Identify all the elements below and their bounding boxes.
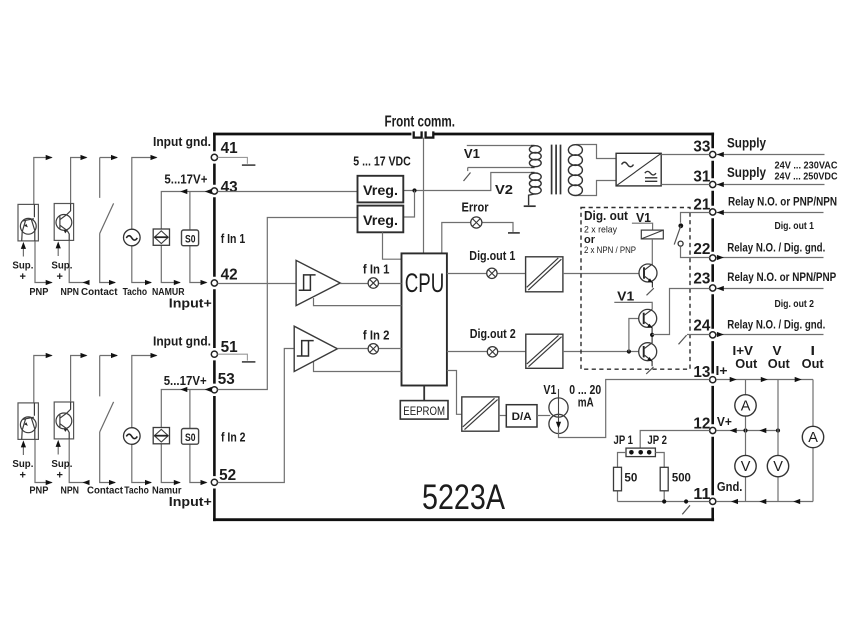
svg-text:f In 1: f In 1 bbox=[363, 263, 390, 277]
svg-text:f In 1: f In 1 bbox=[221, 232, 246, 246]
svg-text:Supply: Supply bbox=[727, 136, 766, 151]
svg-text:Relay N.O. / Dig. gnd.: Relay N.O. / Dig. gnd. bbox=[727, 317, 825, 331]
wire 12 to jumpers bbox=[640, 431, 709, 449]
svg-text:Sup.: Sup. bbox=[51, 260, 72, 272]
svg-text:Relay N.O. or NPN/PNP: Relay N.O. or NPN/PNP bbox=[727, 270, 836, 284]
label Dig.out 2 right bbox=[775, 298, 815, 310]
switch Contact ch1 bbox=[100, 155, 118, 285]
sensor PNP ch2 bbox=[18, 353, 53, 485]
svg-text:V1: V1 bbox=[617, 290, 634, 304]
svg-text:5223A: 5223A bbox=[422, 478, 506, 517]
sensor NAMUR ch1 bbox=[153, 229, 181, 285]
terminal 42 bbox=[211, 266, 237, 286]
wire CPU to opto3 bbox=[447, 371, 462, 415]
terminal 21 bbox=[693, 197, 715, 216]
svg-text:Tacho: Tacho bbox=[124, 486, 149, 497]
meter A column I out bbox=[802, 380, 823, 502]
label V+ bbox=[717, 415, 732, 429]
wire 53 to Vreg2 bbox=[218, 218, 358, 390]
meter V column V out bbox=[767, 380, 788, 502]
wire current source to terminal 13 bbox=[559, 380, 710, 438]
svg-text:41: 41 bbox=[221, 140, 238, 157]
optocoupler 3 bbox=[462, 397, 499, 431]
svg-text:V: V bbox=[773, 459, 783, 475]
svg-text:Out: Out bbox=[768, 357, 791, 371]
terminal 22 bbox=[693, 241, 715, 261]
label I+V Out bbox=[733, 344, 759, 371]
svg-text:43: 43 bbox=[221, 179, 238, 196]
svg-text:42: 42 bbox=[221, 266, 238, 283]
label 5223A bbox=[422, 478, 506, 517]
label Tacho ch1 bbox=[123, 287, 148, 298]
label Namur ch2 bbox=[152, 486, 182, 497]
svg-text:V: V bbox=[741, 459, 751, 475]
svg-text:CPU: CPU bbox=[405, 268, 445, 298]
lamp Error bbox=[442, 200, 520, 253]
front comm connector bbox=[385, 113, 456, 253]
svg-text:NAMUR: NAMUR bbox=[152, 287, 185, 298]
jumper header JP1 JP2 bbox=[614, 433, 668, 457]
svg-text:f In 2: f In 2 bbox=[363, 329, 390, 343]
label 5...17V+ ch2 bbox=[164, 374, 207, 388]
label Input gnd. ch1 bbox=[153, 135, 211, 149]
wire S0 drop ch1 bbox=[189, 192, 191, 231]
terminal 52 bbox=[211, 467, 236, 485]
svg-text:Contact: Contact bbox=[81, 287, 118, 298]
svg-text:V+: V+ bbox=[717, 415, 732, 429]
wire Relay N.O. or PNP/NPN 21 bbox=[716, 195, 837, 216]
svg-text:V2: V2 bbox=[495, 182, 513, 197]
current source 0..20mA bbox=[543, 383, 601, 434]
terminal 12 bbox=[693, 416, 715, 434]
label I Out bbox=[802, 344, 825, 371]
wire Vreg2 to CPU bbox=[383, 232, 402, 259]
svg-text:V: V bbox=[773, 344, 783, 358]
svg-text:f In 2: f In 2 bbox=[221, 431, 246, 445]
svg-text:33: 33 bbox=[693, 139, 710, 156]
label V Out bbox=[768, 344, 791, 371]
CPU U1 bbox=[402, 253, 447, 385]
relay coil K1 bbox=[632, 211, 663, 264]
svg-text:I: I bbox=[811, 344, 816, 358]
svg-text:Sup.: Sup. bbox=[51, 458, 72, 470]
svg-text:Input gnd.: Input gnd. bbox=[153, 335, 211, 349]
lamp Dig.out 1 bbox=[447, 249, 526, 279]
svg-text:V1: V1 bbox=[464, 146, 480, 161]
svg-text:EEPROM: EEPROM bbox=[403, 404, 445, 418]
svg-text:+: + bbox=[57, 271, 63, 283]
label Input+ ch2 bbox=[169, 494, 212, 509]
dashed box Dig. out bbox=[581, 208, 690, 370]
svg-text:S0: S0 bbox=[185, 234, 196, 246]
optocoupler 1 bbox=[526, 257, 563, 292]
terminal 41 ground wire bbox=[218, 157, 256, 165]
wire Gnd row bbox=[716, 499, 813, 504]
terminal 43 bbox=[211, 179, 237, 196]
label Sup. NPN ch2 bbox=[51, 458, 72, 482]
svg-text:51: 51 bbox=[221, 339, 238, 356]
label NPN ch2 bbox=[61, 486, 80, 497]
svg-text:Relay N.O. / Dig. gnd.: Relay N.O. / Dig. gnd. bbox=[727, 240, 825, 254]
terminal 53 bbox=[211, 371, 235, 393]
wire terminal 24 stub bbox=[679, 335, 710, 345]
sensor PNP ch1 bbox=[18, 155, 53, 285]
meter V column I+V bbox=[735, 431, 756, 502]
transistor Q3 bbox=[639, 335, 657, 374]
node Q2-Q3 to terminal 23 bbox=[650, 289, 710, 338]
main unit top border bbox=[213, 133, 714, 136]
label Tacho ch2 bbox=[124, 486, 149, 497]
transformer primary ground bbox=[524, 205, 536, 207]
transistor Q1 bbox=[639, 264, 657, 295]
svg-text:Out: Out bbox=[735, 357, 758, 371]
svg-text:21: 21 bbox=[693, 197, 710, 214]
wire PSU to 33 bbox=[661, 154, 709, 156]
terminal 51 bbox=[211, 339, 237, 357]
svg-text:Dig. out 2: Dig. out 2 bbox=[775, 298, 815, 310]
EEPROM memory bbox=[400, 386, 448, 420]
transformer core bbox=[552, 145, 561, 195]
label I+ bbox=[716, 364, 728, 378]
label Sup. NPN ch1 bbox=[51, 260, 72, 284]
wire Relay N.O. / Dig. gnd. 22 bbox=[716, 240, 825, 260]
svg-text:24: 24 bbox=[693, 318, 710, 335]
svg-text:+: + bbox=[57, 470, 63, 482]
comparator 2 bbox=[218, 326, 402, 482]
label Gnd. bbox=[717, 480, 743, 494]
svg-text:50: 50 bbox=[624, 473, 637, 485]
transformer primary winding 2 bbox=[529, 173, 542, 206]
lamp Dig.out 2 bbox=[447, 327, 526, 357]
power supply unit bbox=[616, 153, 661, 186]
lamp f In 1 bbox=[340, 263, 401, 289]
resistor 50 bbox=[614, 453, 638, 502]
svg-text:31: 31 bbox=[693, 168, 710, 185]
regulator Vreg1 bbox=[358, 176, 404, 203]
svg-text:A: A bbox=[741, 399, 751, 415]
svg-text:mA: mA bbox=[578, 395, 594, 409]
converter D/A bbox=[506, 405, 537, 427]
label 5 ... 17 VDC bbox=[353, 154, 411, 169]
wire Relay N.O. or NPN/PNP 23 bbox=[716, 270, 836, 291]
svg-text:5...17V+: 5...17V+ bbox=[164, 173, 207, 187]
optocoupler 2 bbox=[526, 334, 563, 368]
sensor S0 ch1 bbox=[182, 230, 208, 285]
label 5...17V+ ch1 bbox=[164, 173, 207, 187]
resistor 500 bbox=[655, 453, 691, 502]
wire opto1 to Q1 base bbox=[563, 273, 644, 275]
wire I+ row bbox=[716, 377, 813, 382]
terminal 41 bbox=[211, 140, 237, 160]
terminal 33 bbox=[693, 139, 715, 158]
wire Relay N.O. / Dig. gnd. 24 bbox=[716, 317, 825, 337]
svg-text:Namur: Namur bbox=[152, 486, 182, 497]
wire resistor bus to terminal 11 bbox=[618, 499, 710, 514]
svg-text:Sup.: Sup. bbox=[12, 260, 33, 272]
label Contact ch2 bbox=[87, 486, 124, 497]
svg-text:I+: I+ bbox=[716, 364, 728, 378]
regulator Vreg2 bbox=[358, 206, 404, 233]
wire opto3 to DA bbox=[499, 415, 506, 417]
switch Contact ch2 bbox=[100, 353, 118, 485]
svg-text:Contact: Contact bbox=[87, 486, 124, 497]
svg-text:NPN: NPN bbox=[61, 486, 80, 497]
sensor S0 ch2 bbox=[182, 429, 208, 486]
terminal 23 bbox=[693, 271, 715, 292]
svg-text:24V ... 230VAC: 24V ... 230VAC bbox=[775, 161, 838, 172]
svg-text:52: 52 bbox=[219, 467, 236, 484]
svg-text:NPN: NPN bbox=[61, 287, 80, 298]
svg-text:Dig.out 2: Dig.out 2 bbox=[470, 327, 516, 341]
wire S0 drop ch2 bbox=[189, 390, 191, 429]
switch relay contact 21-22 bbox=[674, 213, 709, 258]
svg-text:+: + bbox=[20, 470, 26, 482]
svg-text:53: 53 bbox=[218, 371, 235, 388]
svg-text:Dig.out 1: Dig.out 1 bbox=[469, 249, 515, 263]
wire DA to current source bbox=[537, 415, 550, 417]
sensor NPN ch2 bbox=[54, 353, 89, 485]
transformer secondary winding bbox=[568, 145, 616, 196]
main unit left border bbox=[213, 133, 216, 521]
svg-text:A: A bbox=[808, 430, 818, 446]
transformer primary winding 1 bbox=[529, 146, 541, 168]
svg-text:Gnd.: Gnd. bbox=[717, 480, 743, 494]
label Supply 31 bbox=[716, 161, 837, 187]
svg-text:PNP: PNP bbox=[29, 287, 48, 298]
svg-text:Vreg.: Vreg. bbox=[363, 183, 398, 198]
svg-text:V1: V1 bbox=[543, 383, 556, 397]
svg-text:Out: Out bbox=[802, 357, 825, 371]
label f In 1 bbox=[221, 232, 246, 246]
svg-text:Front comm.: Front comm. bbox=[385, 113, 456, 130]
wire PSU to 31 bbox=[661, 184, 709, 186]
transistor Q2 bbox=[614, 290, 656, 335]
svg-text:JP 1: JP 1 bbox=[614, 433, 634, 447]
sensor Tacho ch1 bbox=[124, 155, 158, 285]
main unit right border bbox=[711, 133, 714, 521]
svg-text:I+V: I+V bbox=[733, 344, 754, 358]
wire 5..17V+ ch1 bbox=[161, 189, 211, 229]
meter A column I+V bbox=[735, 380, 756, 431]
terminal 31 bbox=[693, 168, 715, 187]
svg-text:Vreg.: Vreg. bbox=[363, 213, 398, 228]
switch V1 bbox=[464, 146, 531, 182]
svg-text:11: 11 bbox=[693, 486, 710, 503]
wire 5..17V+ ch2 bbox=[161, 387, 211, 428]
wire opto2 to Q2 Q3 bases bbox=[563, 319, 644, 354]
svg-text:500: 500 bbox=[672, 473, 691, 485]
svg-text:5 ... 17 VDC: 5 ... 17 VDC bbox=[353, 154, 411, 169]
svg-text:+: + bbox=[20, 271, 26, 283]
svg-text:Dig. out 1: Dig. out 1 bbox=[775, 220, 815, 232]
svg-text:Input gnd.: Input gnd. bbox=[153, 135, 211, 149]
svg-text:5...17V+: 5...17V+ bbox=[164, 374, 207, 388]
svg-text:Error: Error bbox=[462, 200, 489, 214]
label PNP ch2 bbox=[29, 486, 48, 497]
svg-text:Dig. out: Dig. out bbox=[584, 208, 629, 223]
label Input gnd. ch2 bbox=[153, 335, 211, 349]
svg-text:PNP: PNP bbox=[29, 486, 48, 497]
label NPN ch1 bbox=[61, 287, 80, 298]
label f In 2 bbox=[221, 431, 246, 445]
label V2 bbox=[495, 182, 513, 197]
svg-text:Sup.: Sup. bbox=[12, 458, 33, 470]
terminal 51 ground wire bbox=[218, 354, 256, 362]
svg-text:Tacho: Tacho bbox=[123, 287, 148, 298]
svg-text:S0: S0 bbox=[185, 432, 196, 444]
label Sup. PNP ch2 bbox=[12, 458, 33, 482]
terminal 24 bbox=[693, 318, 715, 338]
svg-text:D/A: D/A bbox=[512, 411, 532, 423]
sensor Namur ch2 bbox=[153, 428, 181, 486]
svg-text:13: 13 bbox=[693, 364, 710, 381]
sensor NPN ch1 bbox=[54, 155, 89, 285]
label Contact ch1 bbox=[81, 287, 118, 298]
terminal 11 bbox=[693, 486, 715, 505]
label NAMUR ch1 bbox=[152, 287, 185, 298]
label Dig.out 1 right bbox=[775, 220, 815, 232]
terminal 13 bbox=[693, 364, 715, 383]
main unit bottom border bbox=[213, 518, 714, 521]
svg-text:23: 23 bbox=[693, 271, 710, 288]
label Input+ ch1 bbox=[169, 295, 212, 310]
comparator 1 bbox=[218, 260, 402, 305]
label PNP ch1 bbox=[29, 287, 48, 298]
svg-text:JP 2: JP 2 bbox=[647, 433, 667, 447]
wire V+ row bbox=[716, 428, 780, 433]
svg-text:22: 22 bbox=[693, 241, 710, 258]
sensor Tacho ch2 bbox=[124, 353, 158, 485]
svg-text:2 x NPN / PNP: 2 x NPN / PNP bbox=[584, 245, 636, 256]
svg-text:Relay N.O. or PNP/NPN: Relay N.O. or PNP/NPN bbox=[728, 195, 837, 209]
svg-text:Supply: Supply bbox=[727, 165, 766, 180]
label Sup. PNP ch1 bbox=[12, 260, 33, 284]
svg-text:24V ... 250VDC: 24V ... 250VDC bbox=[775, 171, 838, 182]
wire 43 to Vreg1 and V2 line bbox=[218, 173, 531, 218]
label Supply 33 bbox=[716, 136, 824, 158]
lamp f In 2 bbox=[337, 329, 401, 354]
